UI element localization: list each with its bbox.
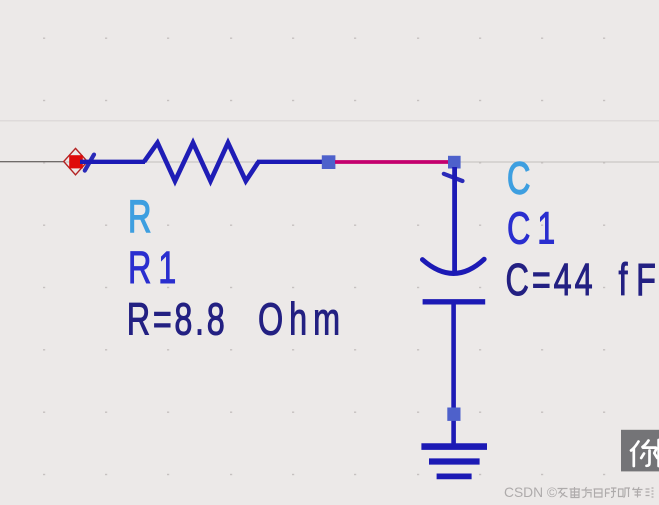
watermark CSDN @author [504, 485, 654, 500]
overlay badge with white CJK glyph [621, 430, 659, 472]
resistor R1 pin 1 tick [85, 155, 94, 171]
junction handle (blue selection square) [322, 155, 336, 169]
wire from resistor R1 to handle [257, 160, 323, 164]
designator R1 [128, 244, 176, 293]
svg-text:C=44: C=44 [506, 256, 593, 305]
svg-text:fF: fF [619, 256, 656, 305]
svg-text:Ohm: Ohm [258, 296, 340, 345]
svg-text:C: C [507, 155, 530, 204]
wire from capacitor C1 to ground [451, 304, 456, 446]
wire stub from left edge to node [0, 161, 64, 163]
wire from node N1 to resistor R1 [80, 160, 145, 164]
svg-text:C: C [507, 204, 530, 253]
svg-text:R: R [128, 244, 151, 293]
value R=8.8 Ohm [127, 296, 340, 345]
wire handle (blue selection square) on ground wire [447, 408, 460, 421]
resistor R1 (zigzag body) [144, 143, 259, 181]
svg-text:R=8.8: R=8.8 [127, 296, 225, 345]
ground [421, 447, 487, 477]
svg-text:R: R [128, 193, 151, 242]
designator C1 [507, 204, 555, 253]
capacitor C1 pin 1 tick [444, 174, 463, 181]
svg-text:CSDN ©: CSDN © [504, 485, 557, 500]
node N1 (selected input node: red diamond marker) [64, 148, 88, 174]
wire W3 selected (magenta) from handle to capacitor node [335, 160, 449, 164]
node handle at capacitor C1 top (blue selection square) [448, 156, 461, 169]
capacitor C1 (curved plate + straight plate) [422, 167, 485, 302]
svg-text:1: 1 [158, 244, 176, 293]
value C=44 fF [506, 256, 656, 305]
svg-text:1: 1 [537, 204, 555, 253]
